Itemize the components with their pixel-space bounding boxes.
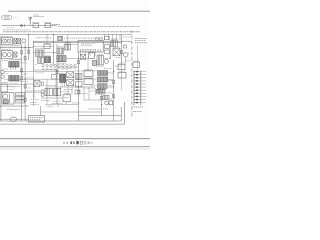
note text top-right (135, 38, 148, 42)
ticks under block1 (11, 67, 16, 70)
mid wires extra (25, 44, 126, 100)
label in bottom left (7, 109, 20, 111)
footer page icons (63, 141, 92, 144)
switch box S1 (45, 24, 51, 28)
drop to det box (67, 34, 69, 44)
display unit box (78, 41, 103, 52)
dark module M2 (57, 56, 66, 62)
vertical bus i (113, 60, 115, 121)
small box r1 (105, 45, 110, 49)
box above ladder (133, 62, 140, 67)
tube V7 (1, 75, 5, 79)
dash-dot right boundary (131, 30, 133, 118)
hatched box H1 (76, 74, 83, 80)
dark module M4 (98, 71, 108, 76)
speaker oval (10, 117, 17, 121)
mixer box (57, 48, 64, 54)
transformer T5 (67, 72, 74, 78)
labels above display (78, 37, 103, 39)
note text right of stamp (14, 16, 18, 18)
connector pin blobs (136, 71, 138, 104)
marks under bus right (96, 38, 103, 40)
top feed wire (2, 25, 58, 27)
vertical drop r (109, 43, 111, 59)
label above dark block1 (9, 59, 22, 61)
wire to T7 (25, 83, 34, 85)
chassis boundary outer (0, 102, 124, 124)
label row under tuner (2, 45, 20, 47)
tube V11 (41, 93, 44, 96)
display box lower text (80, 49, 96, 51)
resistor R2 (124, 45, 127, 48)
relay with coil (105, 101, 113, 105)
module output wires (107, 73, 114, 86)
driver box tall (97, 56, 104, 65)
junction dots (21, 25, 114, 105)
extra wires lower mid (41, 79, 89, 100)
vertical bus f (121, 34, 123, 64)
antenna ANT1 (28, 17, 32, 25)
tube V10 (41, 90, 44, 93)
right small box RB2 (118, 64, 125, 70)
power supply assembly (2, 93, 14, 104)
connector rungs (134, 72, 146, 103)
alignment point row (42, 64, 76, 66)
connector ladder rail left (133, 71, 135, 105)
main unit outline (33, 41, 132, 106)
psu tag box 1 (16, 93, 25, 104)
ticks above T6 (62, 83, 65, 88)
M2 hatch (58, 56, 64, 62)
wire under U2 (1, 84, 25, 86)
box right cluster c1 (84, 71, 93, 77)
left annotation row 2 (3, 29, 30, 31)
CN1 text2 (30, 119, 41, 121)
transformer T2 (18, 38, 21, 43)
tuner block box T (2, 37, 13, 44)
vertical bus c (24, 44, 26, 121)
extra left-mid texture (20, 78, 56, 85)
label row above main unit (36, 37, 52, 39)
label under ladder (132, 107, 143, 112)
page top rule (8, 10, 150, 12)
vertical bus d (53, 34, 55, 66)
label right of CN1 (88, 108, 108, 110)
tube V5 (7, 53, 11, 57)
box H2 (76, 82, 83, 88)
label right mid (123, 52, 129, 54)
label between buses right (123, 36, 130, 38)
more annotation smudges (36, 58, 122, 101)
X-box on display drop (81, 55, 86, 60)
output box (63, 95, 71, 102)
tube V6 (1, 70, 5, 74)
box pair amp left (45, 88, 52, 96)
wires upper mid verticals (68, 52, 99, 95)
det box (65, 44, 71, 50)
extra right mid labels (104, 61, 131, 69)
CN1 text (30, 117, 43, 119)
label row mid (75, 70, 95, 72)
vertical bus g (78, 52, 80, 121)
speaker wire (0, 118, 29, 120)
transformer T3 (14, 52, 17, 57)
bottom band annotation smudges (9, 87, 106, 107)
scattered annotation smudges (2, 37, 139, 105)
transformer T7 (34, 81, 40, 87)
wire row left (0, 47, 33, 49)
small box lower mid (75, 90, 80, 94)
tube V3 (22, 39, 26, 43)
drop to B1 (46, 34, 48, 44)
transformer T1 (14, 38, 17, 43)
tube V4 (3, 53, 7, 57)
top annotation row B (3, 31, 140, 33)
label above B1 (44, 42, 52, 44)
power block box (1, 84, 7, 92)
transformer T4 (113, 49, 120, 56)
osc block box (2, 51, 13, 59)
relay driver box (103, 96, 109, 100)
wire bottom right step (79, 115, 122, 117)
wires mid (4, 45, 111, 105)
footer top rule (0, 138, 150, 140)
top annotation row A (58, 26, 140, 28)
TO label (52, 24, 60, 26)
small parts on vertical buses (21, 50, 123, 101)
small box on bus right (105, 36, 110, 39)
lamp PL1 (20, 24, 22, 26)
stamp oval CL-100 (2, 15, 12, 19)
box pair amp right (54, 88, 61, 96)
vertical drop j (40, 106, 42, 116)
small box on bus (58, 36, 63, 40)
box on bus mid (52, 75, 57, 80)
vertical bus a (28, 34, 30, 60)
coil box (38, 58, 44, 64)
alignment row stems (43, 67, 75, 70)
label row mid2 (75, 78, 95, 80)
tube V2 (7, 39, 11, 43)
right small box RB3 (118, 72, 126, 78)
fuse box F1 (33, 24, 39, 28)
bottom mid wire (41, 111, 102, 113)
box right cluster c2 (84, 78, 93, 84)
ticks on bottom wire (50, 102, 66, 107)
small box r2 (105, 50, 110, 54)
bus drops right (105, 34, 121, 40)
display pin ticks (81, 49, 101, 52)
small box B1 (44, 44, 50, 49)
label row above main unit right (64, 37, 77, 39)
bottom left boundary step (0, 105, 29, 107)
label row under circle row (42, 68, 58, 70)
vertical bus b (21, 44, 23, 121)
psu tag text (16, 94, 23, 102)
antenna label (34, 15, 45, 16)
dark module M6 (98, 84, 108, 89)
label under output (52, 102, 63, 104)
footer bottom rule (0, 146, 150, 148)
ladder feed wire (137, 45, 139, 71)
lower-left extra drops (34, 87, 47, 105)
transformer T6 (67, 80, 74, 86)
tube V1 (3, 39, 7, 43)
dark module M1 (45, 57, 51, 63)
right mid box RB1 (111, 40, 118, 46)
top bus wire (0, 33, 132, 35)
IF transformer box (36, 50, 44, 56)
buffer box (89, 53, 95, 59)
vertical bus h (101, 93, 103, 116)
tube V9 (124, 53, 128, 57)
AF amp hatched block U2 (9, 76, 19, 81)
dark blob module (93, 61, 97, 66)
vertical bus e (56, 44, 58, 104)
dark module M7 (97, 89, 106, 93)
chassis boundary inner (0, 36, 121, 121)
label block mid-left2 (20, 92, 33, 94)
dark module M5 (98, 77, 108, 82)
connector label box CN1 (29, 116, 45, 122)
connector ladder rail right (140, 71, 142, 105)
footer gray strip (0, 147, 150, 150)
display text row (81, 42, 95, 44)
dark module M3 (60, 74, 66, 82)
IF amp hatched block U1 (9, 62, 19, 67)
label row mid-left (2, 86, 20, 88)
resistor R1 (41, 82, 43, 85)
tube V8 (104, 59, 108, 63)
